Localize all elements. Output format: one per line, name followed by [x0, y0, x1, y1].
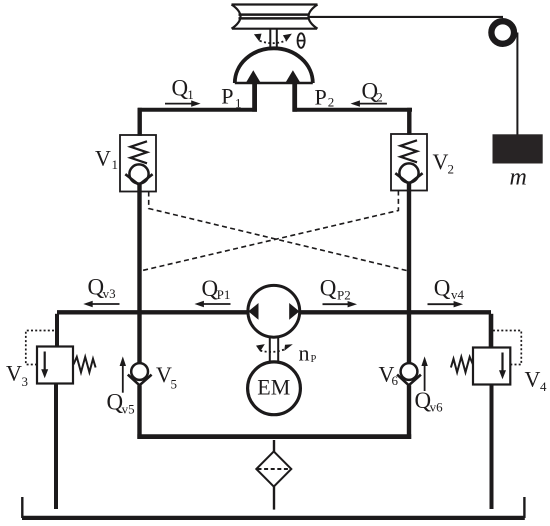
- cable vertical run: [516, 33, 518, 135]
- wire middle horizontal left: [57, 310, 248, 314]
- mass m block: [493, 134, 543, 163]
- wire bottom of inner circuit: [137, 434, 411, 439]
- motor baseline: [235, 82, 313, 85]
- arrow Q1: [165, 100, 201, 106]
- winch drum: [232, 5, 318, 29]
- arrow Qv4: [428, 301, 464, 307]
- wire P2 horizontal: [293, 108, 413, 112]
- pump shaft: [270, 337, 278, 362]
- arrow QP1: [195, 301, 231, 307]
- cable horizontal run: [308, 16, 503, 18]
- arrow QP2: [323, 301, 358, 307]
- relief valve V4: [451, 314, 521, 509]
- wire middle horizontal right: [299, 310, 491, 314]
- motor port left wire: [252, 83, 257, 112]
- check valve V1: [120, 135, 156, 192]
- n_P rotation arrow: [256, 344, 293, 352]
- arrow Qv5: [120, 356, 126, 392]
- wire P1 horizontal: [138, 108, 257, 112]
- filter: [256, 440, 291, 510]
- theta rotation arrow: [254, 34, 292, 44]
- drum shaft: [270, 29, 277, 49]
- pilot line from V1 (dashed): [149, 192, 409, 272]
- hydraulic motor U1 dome: [235, 48, 313, 83]
- wire drop to V2: [407, 108, 411, 135]
- motor triangle left: [245, 70, 261, 83]
- wire left main vertical: [137, 185, 141, 439]
- arrow Qv3: [83, 301, 119, 307]
- arrow Q2: [351, 100, 387, 106]
- wire right main vertical: [407, 184, 411, 439]
- pump triangle left: [248, 303, 258, 320]
- pilot line from V2 (dashed): [140, 191, 398, 272]
- tank: [22, 497, 525, 518]
- check valve V2: [391, 134, 427, 191]
- label theta: [298, 33, 305, 48]
- pulley: [491, 21, 514, 44]
- motor port right wire: [292, 83, 297, 112]
- check valve V6: [397, 363, 421, 385]
- electric motor EM: [248, 362, 301, 415]
- svg-text:EM: EM: [257, 375, 290, 400]
- pump P circle: [248, 285, 300, 337]
- svg-text:m: m: [510, 165, 527, 191]
- motor triangle right: [285, 70, 301, 83]
- wire drop to V1: [137, 108, 141, 136]
- check valve V5: [128, 363, 152, 385]
- relief valve V3: [26, 314, 96, 509]
- arrow Qv6: [421, 356, 427, 391]
- pump triangle right: [289, 303, 299, 320]
